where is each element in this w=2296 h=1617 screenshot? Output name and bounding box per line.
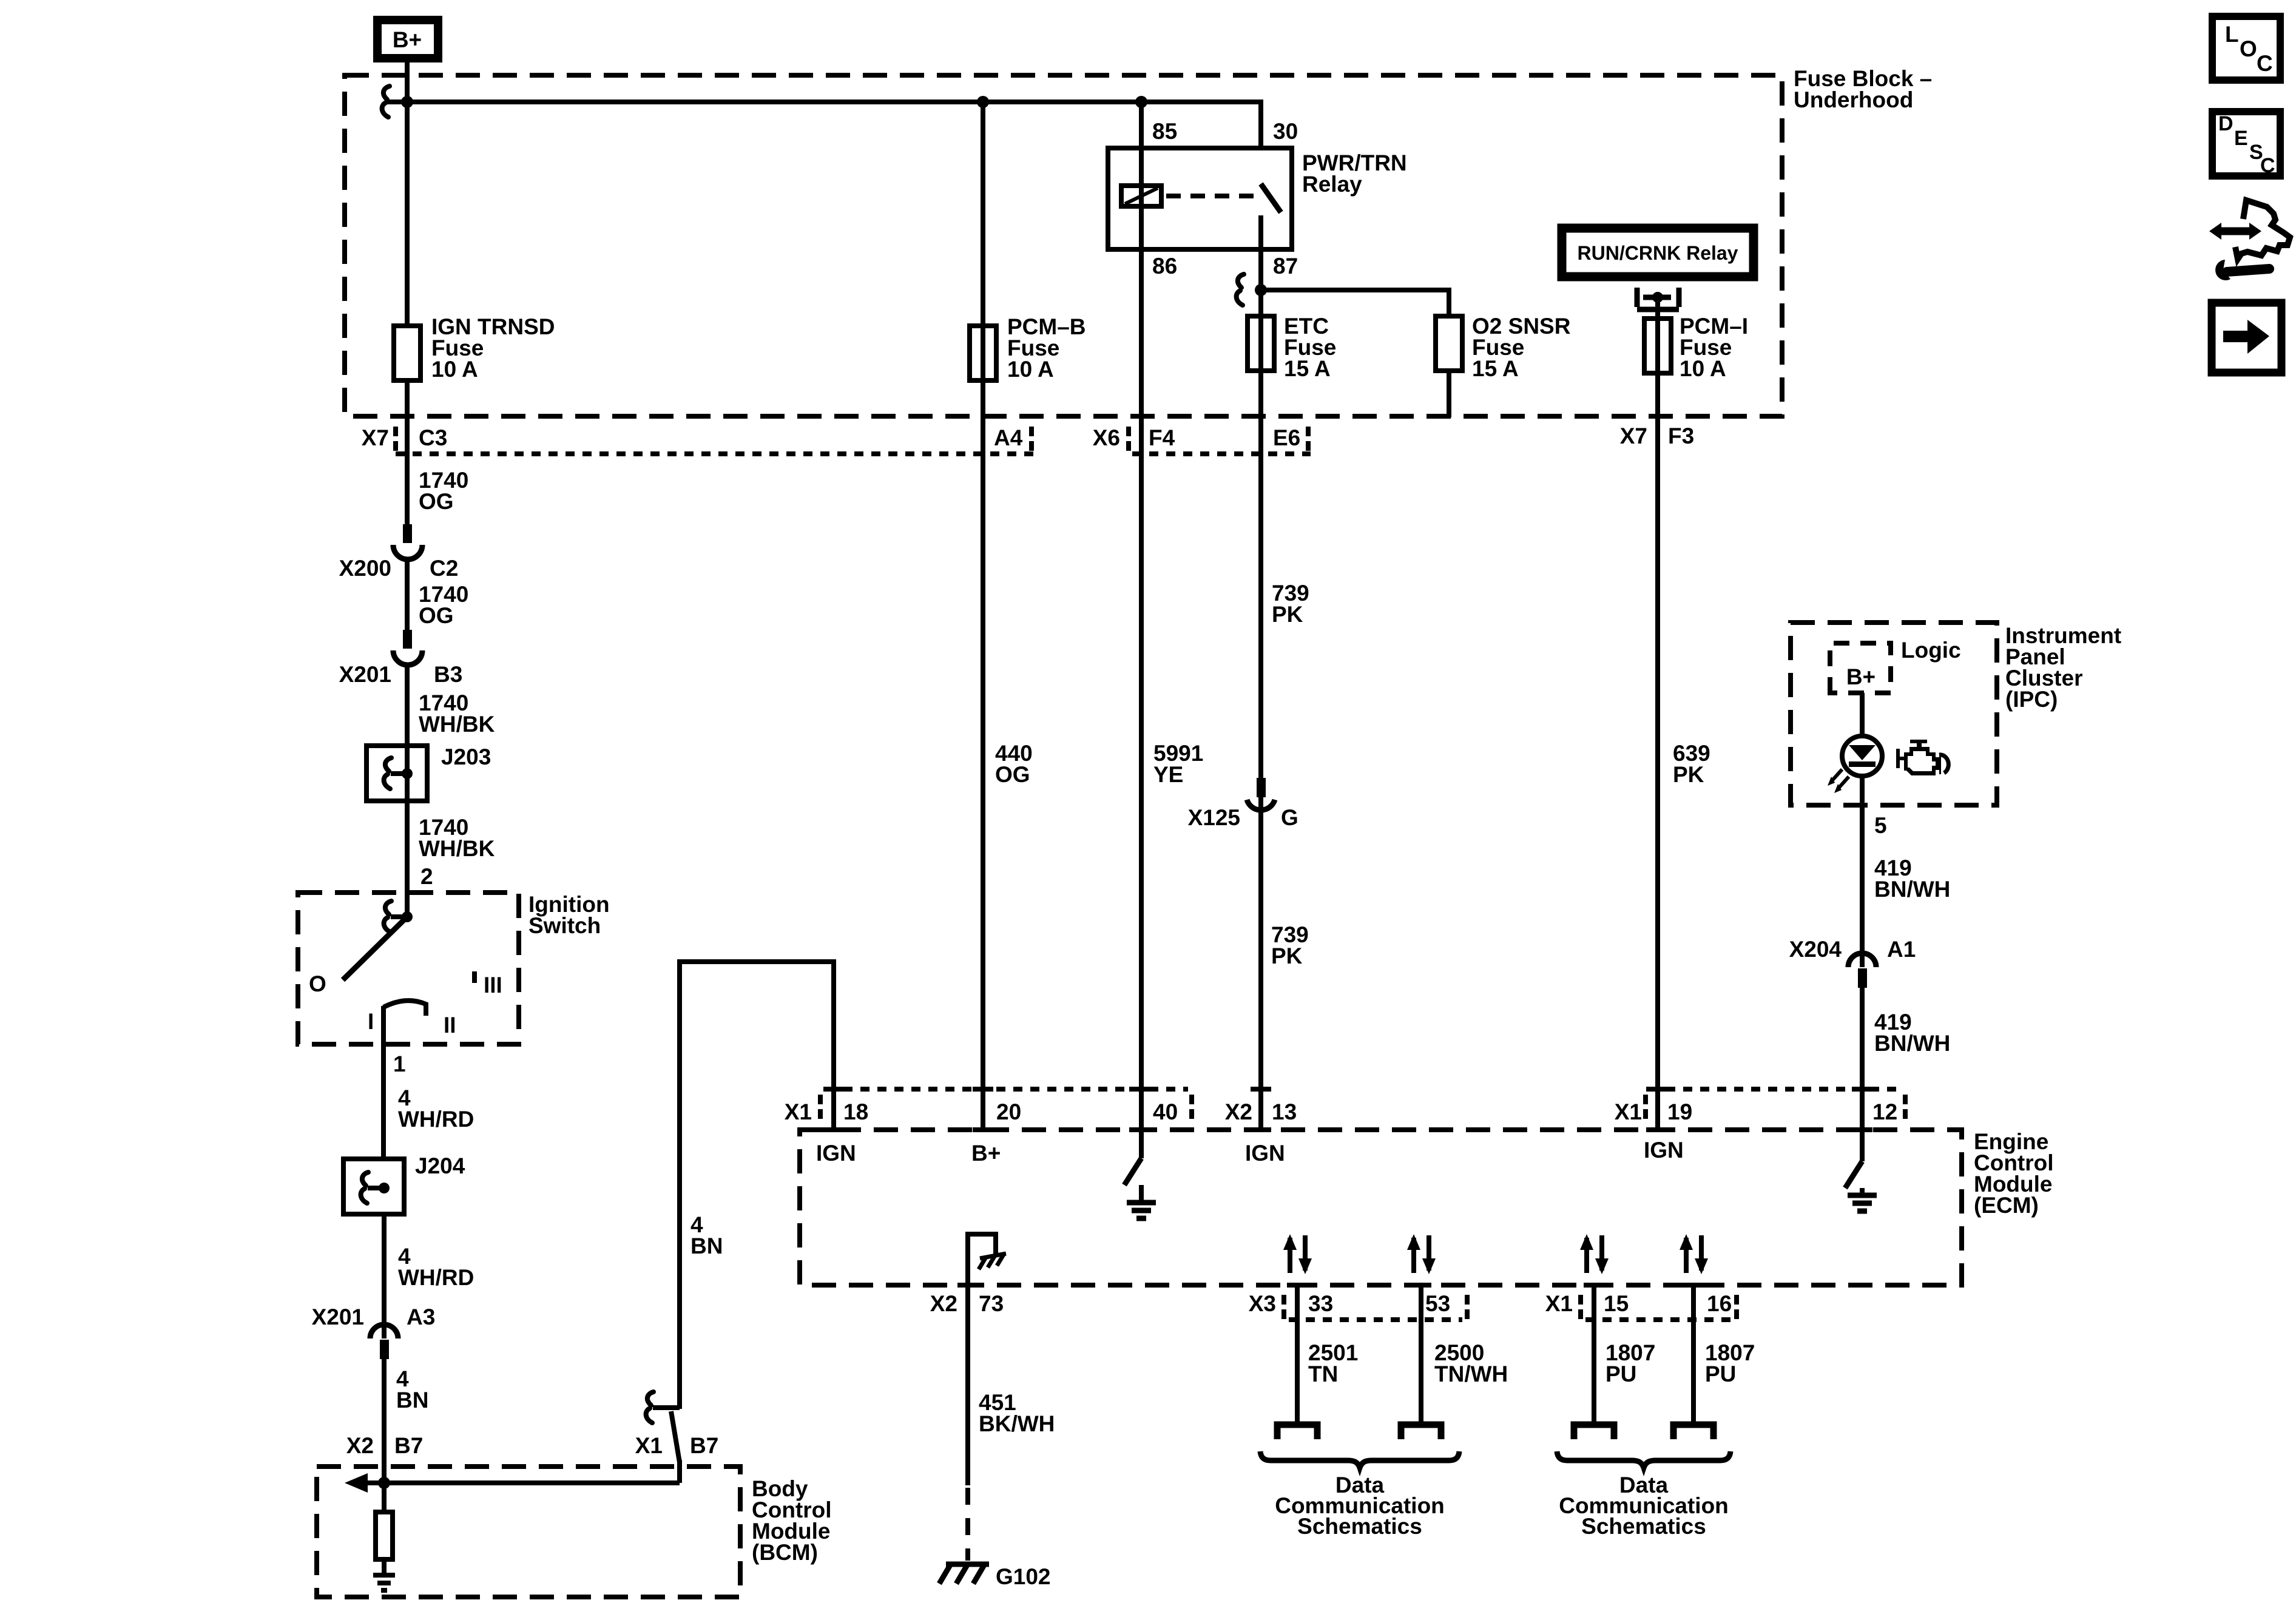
wire IGN TRNSD fuse to X200: [405, 380, 410, 524]
ECM top connector X1 right dotted: [1649, 1087, 1898, 1092]
engine icon (MIL): [1896, 740, 1948, 775]
svg-text:BN: BN: [690, 1234, 723, 1258]
node bus/PCM-B junction: [977, 96, 989, 108]
svg-text:OG: OG: [419, 489, 454, 514]
wire inverted-U: BCM X1 B7 riser to ECM pin 18: [680, 962, 834, 1409]
svg-text:F3: F3: [1668, 424, 1694, 448]
switch blade to O: [343, 917, 407, 980]
svg-text:B+: B+: [971, 1141, 1001, 1166]
svg-text:PK: PK: [1673, 762, 1704, 787]
svg-text:X6: X6: [1093, 425, 1120, 450]
pin ticks ECM bottom: [957, 1283, 1704, 1288]
svg-text:Underhood: Underhood: [1794, 87, 1913, 112]
relay coil: [1121, 186, 1161, 206]
svg-text:PU: PU: [1705, 1362, 1736, 1386]
LED indicator (MIL lamp): [1842, 736, 1882, 776]
svg-text:WH/RD: WH/RD: [398, 1265, 474, 1290]
node bus/IGN TRNSD junction: [401, 96, 413, 108]
icon LOC box: [2212, 16, 2280, 80]
svg-text:IGN: IGN: [816, 1141, 856, 1166]
svg-text:X204: X204: [1789, 937, 1842, 962]
svg-text:(BCM): (BCM): [752, 1540, 818, 1565]
svg-text:D: D: [2218, 112, 2234, 135]
relay switch blade 30-87: [1261, 184, 1281, 212]
svg-text:TN/WH: TN/WH: [1434, 1362, 1508, 1386]
svg-text:PU: PU: [1606, 1362, 1636, 1386]
svg-text:10 A: 10 A: [1680, 356, 1726, 381]
svg-text:Relay: Relay: [1302, 172, 1362, 197]
svg-text:IGN: IGN: [1644, 1138, 1684, 1163]
svg-text:15: 15: [1604, 1291, 1629, 1316]
contact III tick: [472, 971, 477, 983]
svg-text:III: III: [484, 973, 502, 998]
terminator 33: [1277, 1425, 1317, 1439]
relay PWR/TRN box: [1108, 148, 1292, 249]
terminator 53: [1401, 1425, 1441, 1439]
node BCM junction: [378, 1477, 390, 1489]
svg-text:WH/RD: WH/RD: [398, 1107, 474, 1132]
ignition switch dashed box: [298, 893, 519, 1044]
svg-text:Schematics: Schematics: [1297, 1514, 1422, 1539]
wire X200 to X201: [405, 559, 410, 630]
terminator 16: [1673, 1425, 1714, 1439]
arrow continuation left: [345, 1473, 368, 1493]
svg-text:I: I: [368, 1009, 374, 1034]
pin ticks on ECM top edge: [823, 1127, 1872, 1132]
ECM pin 73 internal chassis ground: [968, 1234, 996, 1285]
svg-text:16: 16: [1707, 1291, 1732, 1316]
svg-text:1: 1: [393, 1052, 406, 1076]
connector X125 G: [1257, 778, 1266, 797]
ECM top connector X1 dotted: [826, 1087, 1188, 1092]
data link arrows pair 1: [1283, 1234, 1312, 1274]
svg-text:B+: B+: [1846, 664, 1876, 689]
fuse block - underhood dashed box: [345, 75, 1782, 416]
fuse ETC 15A: [1248, 316, 1274, 371]
svg-text:C: C: [2260, 154, 2275, 177]
svg-text:X201: X201: [312, 1305, 364, 1329]
svg-text:WH/BK: WH/BK: [419, 836, 495, 861]
svg-text:BN/WH: BN/WH: [1874, 877, 1950, 902]
svg-text:Switch: Switch: [528, 913, 601, 938]
relay link dashed: [1166, 194, 1256, 198]
terminator 15: [1574, 1425, 1614, 1439]
wire O2 fuse to fuse block edge: [1447, 371, 1451, 417]
connector X204 A1: [1848, 953, 1876, 967]
svg-text:J204: J204: [415, 1153, 465, 1178]
svg-text:86: 86: [1152, 254, 1177, 279]
fuse IGN TRNSD 10A: [394, 326, 420, 380]
svg-text:X7: X7: [1620, 424, 1647, 448]
svg-text:G: G: [1281, 805, 1298, 830]
connector X1 dotted (data): [1585, 1317, 1732, 1322]
svg-text:II: II: [444, 1013, 456, 1038]
IPC dashed box: [1791, 623, 1997, 805]
wire B+ to bus: [405, 58, 410, 326]
BCM dashed box: [317, 1467, 740, 1597]
connector dotted line under F4..E6: [1132, 451, 1311, 456]
svg-text:X1: X1: [1545, 1291, 1573, 1316]
connector dotted line under C3..A4: [396, 451, 1035, 456]
wire logic B+ to LED: [1860, 693, 1865, 736]
svg-text:BN: BN: [396, 1388, 428, 1413]
svg-text:10 A: 10 A: [431, 357, 478, 382]
wire BCM internal horizontal: [366, 1480, 680, 1485]
node 87 junction: [1255, 284, 1267, 296]
svg-text:C3: C3: [419, 425, 447, 450]
svg-text:15 A: 15 A: [1284, 356, 1331, 381]
clip at X1 B7: [646, 1392, 653, 1423]
wire PCM-B fuse to ECM pin 20: [981, 102, 985, 1130]
svg-text:X201: X201: [339, 662, 391, 687]
wire serial data 16: [1691, 1285, 1696, 1422]
connector X201 A3: [370, 1325, 398, 1338]
ECM dashed box: [800, 1130, 1962, 1285]
pin ticks on connector row: [823, 1087, 1872, 1092]
wire X204 to ECM pin 12: [1860, 988, 1865, 1130]
svg-text:(IPC): (IPC): [2005, 687, 2058, 712]
ground G102: [939, 1563, 989, 1584]
svg-text:X2: X2: [346, 1433, 374, 1458]
svg-text:X1: X1: [635, 1433, 663, 1458]
svg-text:B7: B7: [394, 1433, 423, 1458]
wire serial data 53: [1419, 1285, 1423, 1422]
connector X3 dotted: [1289, 1317, 1462, 1322]
svg-text:X2: X2: [930, 1291, 957, 1316]
svg-text:12: 12: [1872, 1099, 1897, 1124]
svg-text:15 A: 15 A: [1472, 356, 1519, 381]
svg-text:19: 19: [1667, 1099, 1692, 1124]
svg-text:Schematics: Schematics: [1581, 1514, 1706, 1539]
svg-text:A4: A4: [994, 425, 1023, 450]
ECM bottom connector X2 73: [957, 1283, 978, 1288]
logic dashed box: [1830, 643, 1891, 693]
splice J203: [366, 746, 427, 801]
fuse PCM-I 10A: [1644, 319, 1671, 373]
svg-text:RUN/CRNK Relay: RUN/CRNK Relay: [1578, 242, 1738, 264]
ground BCM internal: [382, 1559, 387, 1575]
svg-text:O: O: [2240, 36, 2257, 61]
svg-text:C: C: [2257, 51, 2273, 76]
svg-text:IGN: IGN: [1245, 1141, 1285, 1166]
svg-text:PK: PK: [1271, 944, 1303, 968]
data link arrows pair 3: [1580, 1234, 1609, 1274]
svg-text:E: E: [2234, 127, 2248, 150]
svg-text:33: 33: [1308, 1291, 1333, 1316]
svg-text:X7: X7: [362, 425, 389, 450]
clip at 87 junction: [1237, 274, 1244, 305]
svg-text:G102: G102: [996, 1564, 1051, 1589]
wire 451 BK/WH: [965, 1285, 970, 1485]
wire 87 to O2 fuse: [1261, 290, 1449, 316]
svg-text:O: O: [309, 971, 326, 996]
wire LED to X204: [1860, 776, 1865, 967]
contact arc I-II: [383, 1001, 426, 1016]
icon arrow box: [2212, 303, 2281, 373]
svg-text:A1: A1: [1887, 937, 1916, 962]
svg-text:E6: E6: [1273, 425, 1300, 450]
svg-text:A3: A3: [407, 1305, 435, 1329]
svg-text:20: 20: [996, 1099, 1021, 1124]
svg-text:X3: X3: [1249, 1291, 1276, 1316]
wire serial data 33: [1295, 1285, 1300, 1422]
svg-text:2: 2: [420, 864, 433, 889]
node bus/relay85 junction: [1135, 96, 1147, 108]
svg-text:J203: J203: [441, 744, 491, 769]
wire X201 to J203: [405, 665, 410, 917]
clip at B+ entry: [382, 86, 390, 117]
svg-text:X1: X1: [785, 1099, 812, 1124]
svg-text:B3: B3: [434, 662, 462, 687]
svg-text:53: 53: [1425, 1291, 1450, 1316]
svg-text:X2: X2: [1225, 1099, 1252, 1124]
icon vehicle outline with arrow and wrench: [2209, 200, 2290, 280]
node switch pin 2: [384, 901, 391, 932]
svg-text:5: 5: [1874, 813, 1887, 838]
brace group 2: [1557, 1451, 1730, 1468]
data link arrows pair 2: [1407, 1234, 1436, 1274]
BCM internal load resistor: [382, 1483, 387, 1512]
svg-text:BK/WH: BK/WH: [979, 1411, 1055, 1436]
svg-text:X1: X1: [1615, 1099, 1642, 1124]
wire J204 to X201 A3: [382, 1214, 387, 1338]
wire main bus: [387, 102, 1261, 148]
svg-text:30: 30: [1273, 119, 1298, 144]
relay RUN/CRNK label box: [1562, 228, 1754, 277]
svg-text:13: 13: [1272, 1099, 1297, 1124]
svg-text:B+: B+: [393, 27, 422, 52]
fuse PCM-B 10A: [970, 326, 996, 380]
RUN/CRNK output terminal bracket: [1637, 288, 1679, 309]
switch output wire pin 1: [381, 1006, 386, 1159]
svg-text:10 A: 10 A: [1007, 357, 1054, 382]
connector X200 C2: [403, 524, 412, 543]
svg-text:WH/BK: WH/BK: [419, 712, 495, 737]
svg-text:OG: OG: [995, 762, 1030, 787]
svg-text:85: 85: [1152, 119, 1177, 144]
svg-text:Logic: Logic: [1901, 638, 1961, 663]
svg-text:X200: X200: [339, 556, 391, 581]
splice J204: [343, 1159, 404, 1214]
svg-text:BN/WH: BN/WH: [1874, 1031, 1950, 1056]
battery feed B+ box: [377, 20, 438, 58]
svg-text:87: 87: [1273, 254, 1298, 279]
wire 87 to ETC fuse and down to ECM pin 13: [1258, 290, 1263, 1130]
connector X201 B3: [403, 630, 412, 649]
ECM pin 12 internal switch to ground: [1860, 1130, 1865, 1161]
svg-text:C2: C2: [430, 556, 458, 581]
svg-text:(ECM): (ECM): [1974, 1193, 2039, 1218]
svg-text:PK: PK: [1272, 602, 1303, 627]
ECM pin 40 internal switch to ground: [1124, 1158, 1141, 1185]
data link arrows pair 4: [1680, 1234, 1708, 1274]
svg-text:OG: OG: [419, 603, 454, 628]
svg-text:B7: B7: [690, 1433, 718, 1458]
svg-text:73: 73: [979, 1291, 1004, 1316]
svg-text:L: L: [2225, 22, 2239, 47]
fuse O2 SNSR 15A: [1436, 316, 1462, 371]
wire X201 A3 to BCM: [382, 1359, 387, 1483]
svg-text:TN: TN: [1308, 1362, 1338, 1386]
svg-text:40: 40: [1153, 1099, 1178, 1124]
svg-text:F4: F4: [1149, 425, 1175, 450]
icon DESC box: [2212, 112, 2280, 176]
wire serial data 15: [1592, 1285, 1596, 1422]
wire relay coil 85/86 branch: [1139, 102, 1144, 1158]
svg-text:X125: X125: [1188, 805, 1240, 830]
wire RUN/CRNK to PCM-I fuse and ECM pin 19: [1655, 297, 1660, 1130]
svg-text:18: 18: [843, 1099, 868, 1124]
svg-text:YE: YE: [1153, 762, 1183, 787]
brace group 1: [1260, 1451, 1459, 1468]
